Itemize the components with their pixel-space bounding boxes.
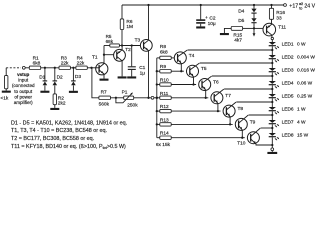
svg-text:R12: R12 [160,104,169,110]
resistor R1 6k8 [29,66,40,69]
wire: base line [171,84,196,86]
svg-text:R13: R13 [160,117,169,123]
wire [271,72,273,81]
svg-text:T1, T3, T4 - T10 = BC238, BC54: T1, T3, T4 - T10 = BC238, BC548 or eq. [11,128,107,134]
node: D5 / R15 / T11 base [253,27,255,29]
transistor T10 [237,128,272,147]
wire: base line [171,70,184,72]
svg-text:6k8: 6k8 [160,50,168,56]
svg-text:P1: P1 [122,89,128,95]
LED7 [269,120,280,128]
ground (T2 collector) [118,76,127,78]
resistor R8 6k8 [157,57,160,59]
node: T1 collector / T2 base [103,54,105,56]
svg-text:amplifier): amplifier) [14,100,33,105]
svg-text:22k: 22k [77,60,85,66]
svg-text:<1k: <1k [0,95,8,101]
svg-text:R7: R7 [101,90,107,96]
capacitor C2 10u (electrolytic) [200,5,202,19]
svg-text:6x 15k: 6x 15k [156,142,171,148]
terminal: LED chain bottom [271,148,274,151]
diode D2 [54,68,56,81]
wire [111,97,124,99]
wire [271,124,273,133]
wire [271,59,273,68]
transistor T4 [174,50,194,71]
wire [70,67,76,69]
svg-text:LED6: LED6 [282,106,294,112]
LED3 [269,68,280,76]
svg-text:T5: T5 [201,66,207,72]
svg-text:of power: of power [14,94,32,99]
ground (D1) [40,91,49,93]
resistor R5 68k [104,45,110,47]
LED1 [269,42,280,50]
svg-text:to output: to output [14,89,33,94]
wire: feed line T8 collector [236,101,272,103]
node: T6 emitter / T7 base [205,97,207,99]
node: rail junction R16 [270,4,272,6]
LED8 [269,133,280,141]
svg-text:R6: R6 [126,19,132,25]
svg-text:C1: C1 [139,65,145,71]
svg-text:R4: R4 [77,55,83,61]
wire [87,67,96,69]
wire [271,98,273,107]
wire [271,46,273,55]
node: T5 emitter / T6 base [192,83,194,85]
wire: T1 collector to T2 base [104,54,117,56]
wire: input line [25,67,29,69]
svg-text:0.004 W: 0.004 W [297,54,315,60]
node: LED3/LED4 junction [271,75,273,77]
node A (D1) [44,67,46,69]
svg-text:LED7: LED7 [282,119,294,125]
resistor R7 560k [99,96,111,99]
wire: base line [171,97,208,99]
svg-text:0.25 W: 0.25 W [297,93,313,99]
wire: to T11 base [254,27,264,29]
diode D5 [251,18,256,23]
svg-text:T10: T10 [237,141,246,147]
transistor T6 [199,76,219,98]
LED6 [269,107,280,115]
svg-text:R1: R1 [33,55,39,61]
ground (C1) [127,76,136,78]
transistor T5 [187,63,207,84]
wire: base line [171,123,233,125]
svg-text:R11: R11 [160,91,169,97]
svg-text:R16: R16 [276,10,285,16]
wire: base line [171,137,245,139]
wire: T2/R5 node to T3 base [122,45,141,47]
LED4 [269,81,280,89]
wire: feed line T7 collector [224,88,272,90]
node: LED4/LED5 junction [271,88,273,90]
wire [41,67,59,69]
svg-text:1μ: 1μ [140,70,146,76]
svg-text:vstup: vstup [17,72,29,77]
ground (LED chain) [267,152,277,154]
node: T4 emitter / T5 base [180,70,182,72]
svg-text:T3: T3 [135,37,141,43]
resistor R14 15k [160,136,171,139]
resistor R6 1M [121,5,123,19]
wire [271,40,273,42]
wire: arrow to LED chain [253,28,255,34]
wire [154,97,160,99]
svg-text:C2: C2 [209,15,215,21]
transistor T2 [114,46,132,77]
node: T9 emitter / T10 base [241,137,243,139]
wire: feed line T6 collector [212,75,272,77]
wire [271,151,273,152]
node: LED7/LED8 junction [271,127,273,129]
transistor T3 [135,5,153,98]
svg-text:LED5: LED5 [282,93,294,99]
node: ladder bus junction [156,97,158,99]
resistor <1k [5,68,7,76]
svg-text:560k: 560k [99,102,110,108]
LED2 [269,55,280,63]
resistor R4 22k [76,66,87,69]
svg-text:T8: T8 [238,106,244,112]
transistor T1 [92,46,108,79]
svg-text:R8: R8 [160,44,166,50]
wire [271,85,273,94]
transistor T7 [211,89,231,111]
svg-text:68k: 68k [106,39,114,44]
ground (D3) [69,91,78,93]
svg-text:LED1: LED1 [282,41,294,47]
node: rail junction D4 [253,4,255,6]
wire: feed line T10 collector [261,127,273,129]
wire: feed line T9 collector [249,114,273,116]
wire [253,23,255,29]
svg-text:LED4: LED4 [282,80,294,86]
svg-text:T11: T11 [278,24,286,30]
resistor R16 33 [271,5,273,8]
wire: feed line T5 collector [200,62,273,64]
node: bus R10 [156,83,158,85]
node: T8 emitter / T9 base [229,123,231,125]
svg-text:(connected: (connected [12,83,35,88]
terminal on meter line [151,96,154,99]
svg-text:250k: 250k [127,103,138,109]
terminal: T11 collector / LED1 [271,37,273,39]
wire: dashed input link [6,67,21,69]
svg-text:22k: 22k [61,60,69,66]
node: R7 / P1 wiper [115,97,117,99]
svg-text:0.016 W: 0.016 W [297,67,315,73]
diode D4 [253,5,255,9]
svg-text:T2: T2 [125,47,131,53]
svg-text:4k7: 4k7 [234,38,242,44]
svg-text:LED8: LED8 [282,132,294,138]
svg-text:input: input [18,78,29,83]
svg-text:D1 - D5 = KA501, KA262, 1N4148: D1 - D5 = KA501, KA262, 1N4148, 1N914 or… [11,120,127,126]
svg-text:T4: T4 [189,53,195,59]
node: rail junction C2 [200,4,202,6]
node: LED5/LED6 junction [271,101,273,103]
wire [253,13,255,18]
ground (R2) [50,108,59,110]
node: bus R12 [156,110,158,112]
svg-text:4 W: 4 W [297,119,306,125]
node: bus R9 [156,70,158,72]
svg-text:LED3: LED3 [282,67,294,73]
node: LED6/LED7 junction [271,114,273,116]
node C (D3) [72,67,74,69]
node: LED2/LED3 junction [271,62,273,64]
svg-text:D2: D2 [57,74,63,80]
terminal: supply [284,4,287,7]
svg-text:D5: D5 [238,18,244,24]
svg-text:R15: R15 [233,32,242,38]
wire [271,111,273,120]
svg-text:T1: T1 [92,55,98,61]
node: R5/R6/T2 emitter [121,44,123,46]
wire: node D down to R7 [92,68,99,98]
node: rail junction T3 collector [147,4,149,6]
wire: ladder bus [156,58,158,138]
node: C1 tap [131,44,133,46]
svg-text:15 W: 15 W [297,132,309,138]
terminal: input [22,66,25,69]
ground (under <1k) [2,91,11,93]
svg-text:0.06 W: 0.06 W [297,80,313,86]
node: T7 emitter / T8 base [217,110,219,112]
svg-text:R3: R3 [61,55,67,61]
svg-text:R9: R9 [160,64,166,70]
wire: +V supply rail [122,4,284,6]
svg-text:+17: +17 [289,3,298,9]
svg-text:24 V: 24 V [304,4,315,10]
wire: feed line T4 collector [188,49,273,51]
svg-text:T2 = BC177, BC308, BC558 or eq: T2 = BC177, BC308, BC558 or eq. [11,136,94,142]
svg-text:R14: R14 [160,131,169,137]
ground (T1 emitter) [100,79,109,81]
svg-text:6k8: 6k8 [33,60,41,66]
svg-text:D1: D1 [39,74,45,80]
svg-text:T6: T6 [213,80,219,86]
svg-text:2k2: 2k2 [58,101,66,107]
svg-text:T7: T7 [225,93,231,99]
wire: base line [171,110,220,112]
ground (R15) [220,33,229,35]
svg-text:D4: D4 [238,9,244,15]
svg-text:to: to [299,6,302,10]
transistor T11 (PNP) [263,23,286,37]
potentiometer P1 250k [116,89,138,108]
svg-text:až: až [299,2,303,6]
node D (R7 tap / T1 base) [90,67,92,69]
svg-text:0 W: 0 W [297,41,306,47]
transistor T9 [235,115,255,138]
capacitor C1 1u [131,46,133,67]
resistor R15 4k7 [224,28,231,33]
svg-text:LED2: LED2 [282,54,294,60]
node B (D2) [54,67,56,69]
LED5 [269,94,280,102]
svg-text:1 W: 1 W [297,106,306,112]
diode D1 [44,68,46,81]
transistor T8 [223,102,243,124]
svg-text:R10: R10 [160,78,169,84]
node: bus R13 [156,123,158,125]
node: bus R11 [156,97,158,99]
node: T3 emitter / P1 [147,97,149,99]
wire [271,137,273,148]
svg-text:1M: 1M [126,24,133,30]
svg-text:T11 = KFY18, BD140 or eq. (ß>1: T11 = KFY18, BD140 or eq. (ß>100, Ptot>0… [11,144,126,150]
svg-text:33: 33 [276,16,282,22]
ground (C2) [196,26,205,28]
node: LED1/LED2 junction [271,49,273,51]
wire [134,97,151,99]
svg-text:T9: T9 [250,119,256,125]
diode D3 [72,68,74,81]
resistor R2 2k2 [54,85,56,94]
resistor R3 22k [59,66,70,69]
svg-text:D3: D3 [75,74,81,80]
svg-text:10μ: 10μ [208,21,216,27]
node: LED8 bottom / T10 emitter [271,144,273,146]
